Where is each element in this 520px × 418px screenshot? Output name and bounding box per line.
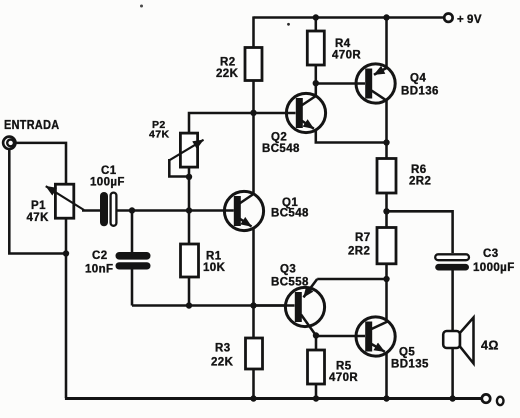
capacitor C2 plate bottom <box>116 262 151 269</box>
node C2 top <box>129 207 135 213</box>
potentiometer P1 body <box>55 184 73 218</box>
capacitor C1 plate left <box>100 192 108 226</box>
wire input ground side <box>9 149 66 254</box>
terminal 0V <box>482 394 490 402</box>
transistor Q3 BC558 <box>254 279 387 350</box>
wire main signal line C1 to Q1 base <box>117 209 234 212</box>
svg-text:22K: 22K <box>216 68 239 80</box>
resistor R1 <box>181 244 199 277</box>
svg-text:1000µF: 1000µF <box>473 262 515 274</box>
node R5 ground <box>313 395 319 401</box>
transistor Q4 BD136 <box>316 64 395 143</box>
svg-text:+ 9V: + 9V <box>457 14 482 26</box>
node R2/Q1/Q2/P2 junction <box>250 110 256 116</box>
node Q2 emitter / Q4 collector / R6 <box>383 139 389 145</box>
wire C3 to speaker <box>451 270 454 331</box>
node P1 bottom / input ground <box>63 250 69 256</box>
svg-text:2R2: 2R2 <box>409 176 431 188</box>
wire R4 bottom to node <box>315 65 318 84</box>
transistor Q5 BD135 <box>356 279 395 399</box>
svg-text:100µF: 100µF <box>90 177 125 189</box>
svg-text:Q3: Q3 <box>280 264 296 276</box>
wire R6 top <box>385 143 388 159</box>
wire emitter feedback line <box>132 304 287 307</box>
svg-text:R3: R3 <box>215 343 231 355</box>
wire rail to R4 <box>315 18 318 32</box>
svg-text:22K: 22K <box>211 357 234 369</box>
svg-text:BC548: BC548 <box>271 208 309 220</box>
wire R2 bottom to node <box>252 81 255 114</box>
wire R1 bottom <box>188 277 191 306</box>
node R3 ground <box>250 395 256 401</box>
wire top supply rail <box>254 16 445 19</box>
svg-text:BC548: BC548 <box>262 143 300 155</box>
svg-text:470R: 470R <box>329 372 358 384</box>
svg-text:R5: R5 <box>336 361 352 373</box>
svg-text:2R2: 2R2 <box>348 246 370 258</box>
svg-text:ENTRADA: ENTRADA <box>4 117 60 132</box>
svg-text:Q2: Q2 <box>271 132 287 144</box>
capacitor C1 plate right <box>111 193 117 226</box>
terminal ENTRADA input jack <box>3 137 15 149</box>
wire R3 bottom <box>252 369 255 399</box>
svg-text:4Ω: 4Ω <box>481 339 499 353</box>
wire R5 bottom <box>315 384 318 399</box>
wire R3 top <box>252 306 255 339</box>
resistor R6 <box>377 159 396 194</box>
node Q5 emitter ground <box>383 395 389 401</box>
node R1 bottom <box>186 302 192 308</box>
svg-text:Q4: Q4 <box>410 73 426 85</box>
wire Q3 collector to Q5 base <box>316 335 365 338</box>
svg-text:R7: R7 <box>355 232 371 244</box>
wire input to P1 top <box>16 143 67 185</box>
potentiometer P2 body <box>180 133 197 167</box>
svg-text:470R: 470R <box>332 50 361 62</box>
svg-text:R6: R6 <box>411 164 427 176</box>
node R7/Q3 emitter/Q5 collector <box>383 276 389 282</box>
svg-text:R2: R2 <box>220 56 236 68</box>
wire R1 top <box>188 211 191 245</box>
scan speck <box>140 5 143 8</box>
node Q1 emitter / R3 / Q3 base <box>250 302 256 308</box>
wire bottom ground rail <box>65 397 482 400</box>
svg-text:C3: C3 <box>483 248 499 260</box>
wire P1 bottom to ground rail <box>65 218 68 398</box>
svg-text:R1: R1 <box>206 250 222 262</box>
svg-text:47K: 47K <box>27 212 50 224</box>
transistor Q1 BC548 <box>224 113 263 306</box>
wire R6 bottom to node <box>385 193 388 228</box>
capacitor C2 wire top <box>131 211 134 254</box>
potentiometer P2 wiper arrow <box>169 140 203 161</box>
svg-text:R4: R4 <box>335 38 351 50</box>
node Q3 collector / R5 / Q5 base <box>313 332 319 338</box>
node rail-R4 <box>313 14 319 20</box>
svg-text:C1: C1 <box>101 165 117 177</box>
node P2 wiper junction <box>186 174 192 180</box>
svg-text:BC558: BC558 <box>271 277 309 289</box>
resistor R3 <box>246 338 263 369</box>
node output R6/R7 <box>383 208 389 214</box>
terminal +9V <box>444 14 452 22</box>
svg-text:C2: C2 <box>92 250 108 262</box>
wire P1 wiper to C1 <box>82 209 101 212</box>
node speaker ground <box>449 395 455 401</box>
resistor R2 <box>245 48 262 81</box>
wire output to C3 <box>387 211 453 253</box>
wire speaker to ground rail <box>451 348 454 399</box>
wire R7 bottom <box>385 264 388 279</box>
svg-text:BD135: BD135 <box>391 359 429 371</box>
speaker 4 ohm <box>443 318 473 364</box>
potentiometer P1 wiper arrow <box>46 186 84 210</box>
svg-text:10nF: 10nF <box>85 264 113 276</box>
resistor R4 <box>307 31 324 65</box>
resistor R5 <box>308 350 325 384</box>
capacitor C2 plate top <box>116 252 151 260</box>
wire C2 bottom to emitter line <box>131 269 134 306</box>
node rail-Q4 <box>383 14 389 20</box>
wire P2 top <box>189 113 254 211</box>
node R4/Q2/Q4 junction <box>313 80 319 86</box>
svg-text:10K: 10K <box>203 262 226 274</box>
capacitor C3 plate bottom <box>435 264 469 271</box>
scan speck <box>287 23 290 26</box>
wire R2 top to rail <box>252 16 255 47</box>
node P2 bottom / R1 top <box>186 207 192 213</box>
svg-text:P1: P1 <box>31 200 46 212</box>
transistor Q2 BC548 <box>254 83 387 142</box>
svg-text:Q5: Q5 <box>399 347 415 359</box>
terminal 0 label circle <box>497 397 504 405</box>
capacitor C3 plate top <box>435 254 469 260</box>
svg-text:BD136: BD136 <box>401 86 439 98</box>
svg-text:47K: 47K <box>149 129 169 141</box>
wire rail to Q4 emitter <box>385 18 388 69</box>
wire P2 wiper to bottom node <box>169 159 189 177</box>
resistor R7 <box>377 228 396 264</box>
